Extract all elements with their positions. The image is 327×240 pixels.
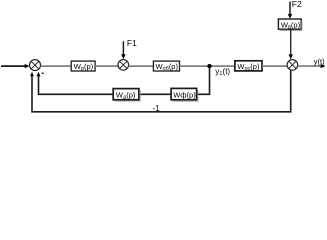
node y1 junction dot — [207, 64, 211, 68]
svg-text:F2: F2 — [292, 0, 302, 9]
wire Wob to Wos through node — [180, 65, 235, 67]
minus sign at S1 — [42, 72, 44, 74]
block Wv(p) — [278, 19, 302, 30]
wire outer feedback from S3 down across and up to S1 — [32, 70, 291, 112]
arrowhead F1 into S2 — [121, 54, 125, 59]
wire F1 — [122, 41, 124, 55]
svg-text:Wр(p): Wр(p) — [74, 62, 94, 72]
svg-text:F1: F1 — [127, 38, 137, 48]
arrowhead output — [321, 64, 326, 68]
wire S2 to Wob — [129, 65, 154, 67]
wire F2 — [289, 2, 291, 15]
wire input — [1, 65, 26, 67]
wire output — [298, 65, 322, 67]
arrowhead F2 into Wv — [288, 14, 292, 19]
block Wf(p) — [171, 88, 198, 101]
svg-text:y1(t): y1(t) — [215, 67, 230, 77]
wire Wv down to S3 — [290, 29, 292, 55]
svg-text:y(t): y(t) — [314, 57, 325, 66]
svg-text:Wф(p): Wф(p) — [173, 90, 196, 99]
svg-text:-1: -1 — [153, 104, 160, 113]
arrowhead outer feedback into S1 — [30, 72, 34, 77]
summer S2 — [118, 60, 129, 71]
wire Wd left and up to S1 — [39, 76, 114, 94]
wire S1 to Wr — [41, 65, 72, 67]
arrowhead input — [25, 64, 30, 68]
arrowhead inner feedback into S1 — [37, 72, 41, 77]
block Wr(p) — [71, 61, 95, 72]
wire Wos to S3 — [262, 65, 288, 67]
svg-text:Wв(p): Wв(p) — [281, 20, 301, 30]
svg-text:Wд(p): Wд(p) — [116, 90, 136, 100]
block Wob(p) — [153, 61, 179, 72]
block Wd(p) — [113, 89, 140, 101]
block Wos(p) — [235, 61, 262, 72]
arrowhead Wv into S3 — [289, 54, 293, 59]
wire Wr to S2 — [95, 65, 118, 67]
summer S1 — [30, 60, 41, 71]
wire Wf to Wd — [139, 93, 171, 95]
wire inner feedback from node down and left to Wf — [197, 66, 210, 94]
summer S3 — [287, 60, 298, 71]
